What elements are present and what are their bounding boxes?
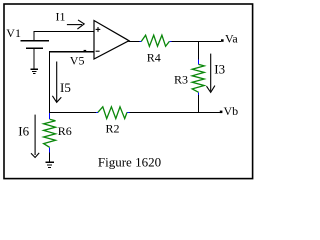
svg-text:Vb: Vb (224, 104, 239, 118)
svg-text:I5: I5 (60, 80, 71, 95)
svg-text:I6: I6 (18, 124, 29, 139)
svg-text:I1: I1 (56, 9, 66, 23)
svg-text:Va: Va (225, 31, 238, 45)
svg-text:R6: R6 (58, 124, 72, 138)
svg-text:I3: I3 (214, 61, 225, 76)
svg-text:V1: V1 (6, 26, 21, 40)
svg-text:V5: V5 (70, 53, 85, 67)
svg-text:R2: R2 (106, 122, 120, 136)
svg-text:R4: R4 (147, 50, 161, 64)
svg-text:R3: R3 (174, 73, 188, 87)
svg-text:Figure 1620: Figure 1620 (98, 155, 161, 170)
